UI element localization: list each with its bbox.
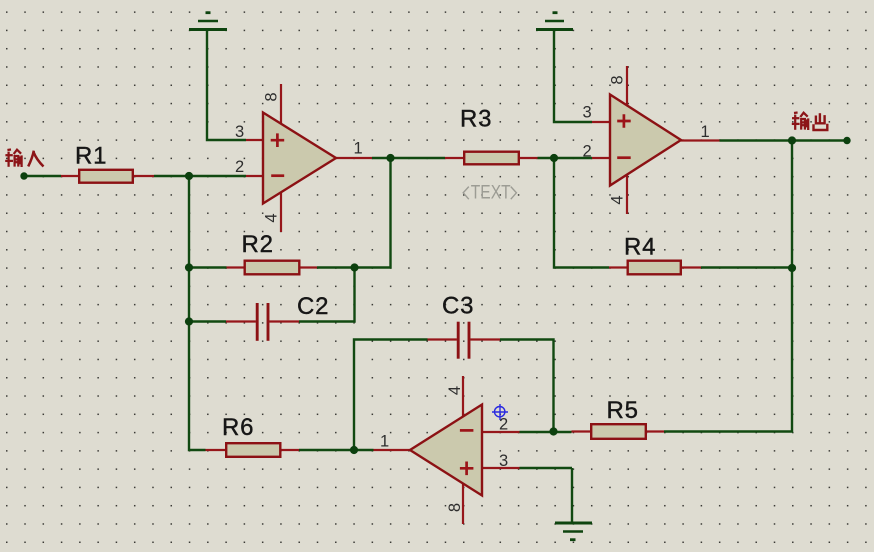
svg-text:8: 8	[446, 503, 464, 512]
svg-text:3: 3	[235, 123, 244, 141]
svg-text:R5: R5	[607, 397, 639, 424]
svg-text:R1: R1	[75, 143, 107, 170]
svg-text:3: 3	[583, 103, 592, 121]
svg-text:2: 2	[583, 142, 592, 160]
svg-text:TEXT: TEXT	[471, 181, 511, 203]
svg-text:1: 1	[380, 432, 389, 450]
svg-text:R2: R2	[242, 231, 274, 258]
svg-text:C2: C2	[297, 293, 329, 320]
svg-text:4: 4	[609, 195, 627, 204]
svg-text:R4: R4	[624, 234, 656, 261]
svg-text:R6: R6	[222, 414, 254, 441]
svg-text:8: 8	[609, 75, 627, 84]
svg-text:4: 4	[263, 213, 281, 222]
svg-text:R3: R3	[460, 106, 492, 133]
svg-text:1: 1	[354, 139, 363, 157]
svg-text:4: 4	[446, 386, 464, 395]
svg-text:8: 8	[263, 92, 281, 101]
svg-text:3: 3	[499, 452, 508, 470]
svg-text:2: 2	[499, 415, 508, 433]
svg-text:C3: C3	[442, 293, 474, 320]
svg-text:1: 1	[701, 123, 710, 141]
svg-text:2: 2	[235, 158, 244, 176]
